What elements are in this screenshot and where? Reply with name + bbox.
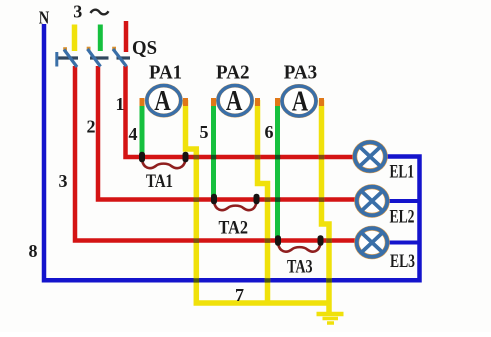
svg-text:PA1: PA1: [149, 63, 182, 84]
svg-text:EL2: EL2: [390, 207, 415, 228]
svg-text:EL3: EL3: [390, 251, 415, 272]
svg-text:6: 6: [265, 122, 274, 142]
svg-text:A: A: [154, 85, 171, 117]
svg-text:7: 7: [235, 285, 244, 305]
svg-text:1: 1: [116, 94, 125, 114]
svg-text:8: 8: [29, 241, 38, 261]
svg-text:TA2: TA2: [219, 218, 249, 239]
svg-text:N: N: [39, 8, 50, 28]
svg-text:PA3: PA3: [284, 63, 318, 84]
svg-text:PA2: PA2: [216, 63, 250, 84]
svg-text:QS: QS: [132, 37, 157, 59]
svg-text:TA1: TA1: [146, 171, 173, 192]
svg-text:2: 2: [87, 117, 96, 137]
svg-text:EL1: EL1: [390, 162, 415, 183]
svg-text:TA3: TA3: [287, 257, 313, 278]
svg-text:A: A: [226, 85, 243, 117]
svg-text:A: A: [292, 86, 309, 118]
svg-text:4: 4: [129, 124, 138, 144]
svg-text:3: 3: [73, 2, 82, 22]
svg-text:5: 5: [200, 122, 209, 142]
svg-text:3: 3: [59, 171, 68, 191]
